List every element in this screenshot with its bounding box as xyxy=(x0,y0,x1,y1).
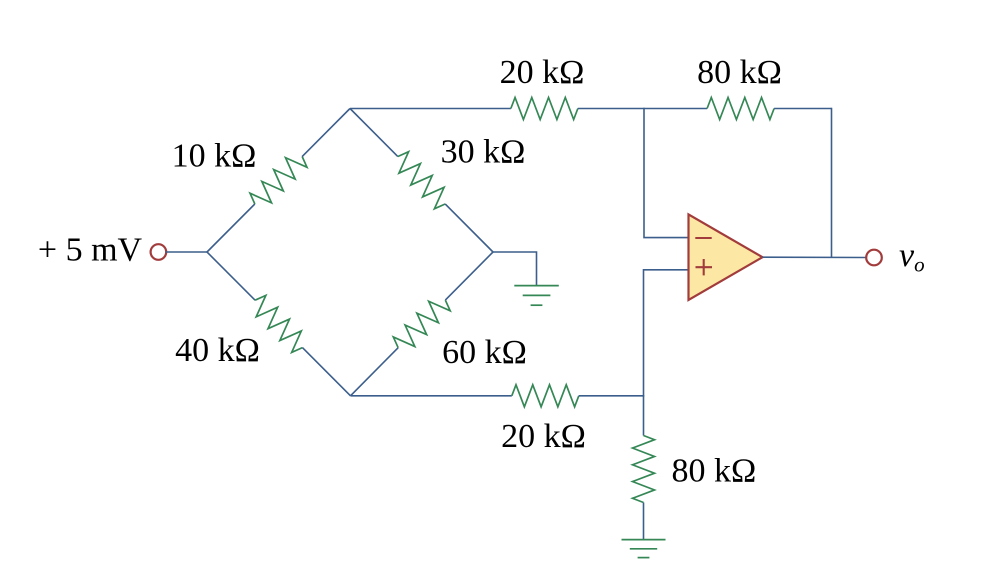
svg-text:20 kΩ: 20 kΩ xyxy=(500,54,585,91)
svg-text:10 kΩ: 10 kΩ xyxy=(172,138,257,175)
svg-text:30 kΩ: 30 kΩ xyxy=(441,134,526,171)
wire output xyxy=(763,256,866,258)
wire xyxy=(351,348,399,396)
svg-text:+ 5 mV: + 5 mV xyxy=(38,232,143,269)
wire xyxy=(445,252,493,300)
wire xyxy=(351,395,512,397)
wire xyxy=(579,395,644,397)
svg-text:60 kΩ: 60 kΩ xyxy=(442,334,527,371)
resistor 20k top xyxy=(511,98,578,120)
svg-text:40 kΩ: 40 kΩ xyxy=(175,332,260,369)
wire feedback vertical xyxy=(831,108,833,257)
wire to noninverting input xyxy=(644,270,689,397)
op-amp U1 xyxy=(689,214,763,300)
wire xyxy=(350,109,398,157)
resistor 80k vertical xyxy=(633,436,655,503)
wire xyxy=(643,395,645,436)
wire xyxy=(643,503,645,540)
input terminal xyxy=(151,244,167,260)
wire xyxy=(207,252,255,300)
wire xyxy=(302,109,350,157)
wire xyxy=(774,108,831,110)
wire to inverting input xyxy=(644,108,689,238)
resistor 20k bottom xyxy=(512,385,579,407)
wire xyxy=(350,108,511,110)
output terminal xyxy=(866,250,882,266)
svg-text:80 kΩ: 80 kΩ xyxy=(672,453,757,490)
svg-text:vo: vo xyxy=(899,237,925,277)
resistor 30k xyxy=(390,149,453,212)
resistor 60k xyxy=(390,292,453,355)
ground (bottom) xyxy=(622,539,666,541)
svg-text:20 kΩ: 20 kΩ xyxy=(501,418,586,455)
svg-text:80 kΩ: 80 kΩ xyxy=(697,54,782,91)
wire xyxy=(445,204,493,252)
op-amp plus pin xyxy=(696,266,713,268)
resistor 80k top xyxy=(707,98,774,120)
wire xyxy=(493,252,537,286)
wire xyxy=(578,108,707,110)
resistor 40k xyxy=(247,292,310,355)
resistor 10k xyxy=(247,149,310,212)
op-amp minus pin xyxy=(695,237,711,239)
ground (bridge) xyxy=(514,285,559,287)
wire xyxy=(302,348,350,396)
wire xyxy=(207,204,255,252)
wire xyxy=(166,251,207,253)
